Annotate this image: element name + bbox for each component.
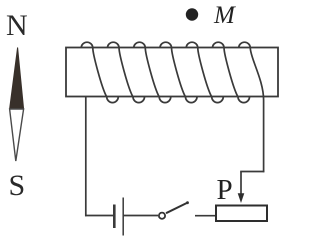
wire: bottom from left lead to battery: [85, 215, 113, 217]
compass needle north half (filled): [10, 48, 24, 110]
rheostat body: [216, 206, 267, 222]
switch pivot: [159, 213, 165, 219]
battery positive plate (long thin): [122, 198, 124, 236]
winding turn 3: [134, 42, 171, 102]
rheostat wiper arrowhead: [238, 193, 245, 203]
wire: switch fixed contact to rheostat: [195, 215, 217, 217]
winding turn 2: [107, 42, 144, 102]
wire: battery to switch: [123, 215, 158, 217]
wire: left lead from coil down: [85, 97, 87, 217]
winding turn 4: [160, 42, 197, 102]
svg-text:S: S: [9, 169, 26, 202]
winding turn 7 (top cap only, runs into right lead): [239, 42, 251, 48]
compass needle south half (outline): [10, 109, 24, 161]
winding turn 1: [81, 42, 118, 102]
svg-text:N: N: [6, 9, 28, 42]
svg-text:M: M: [213, 2, 236, 29]
battery negative plate (short thick): [113, 205, 116, 229]
switch lever tip: [186, 201, 189, 204]
svg-text:P: P: [217, 174, 233, 206]
switch lever (open): [166, 203, 188, 214]
solenoid core rectangle: [66, 48, 278, 97]
point M dot: [186, 8, 198, 20]
wire: right lead from coil (last turn diagonal curving down): [250, 48, 263, 172]
wire: jog horizontal: [240, 171, 264, 173]
wire: wiper drop: [240, 172, 242, 197]
winding turn 5: [186, 42, 223, 102]
winding turn 6: [212, 42, 249, 102]
